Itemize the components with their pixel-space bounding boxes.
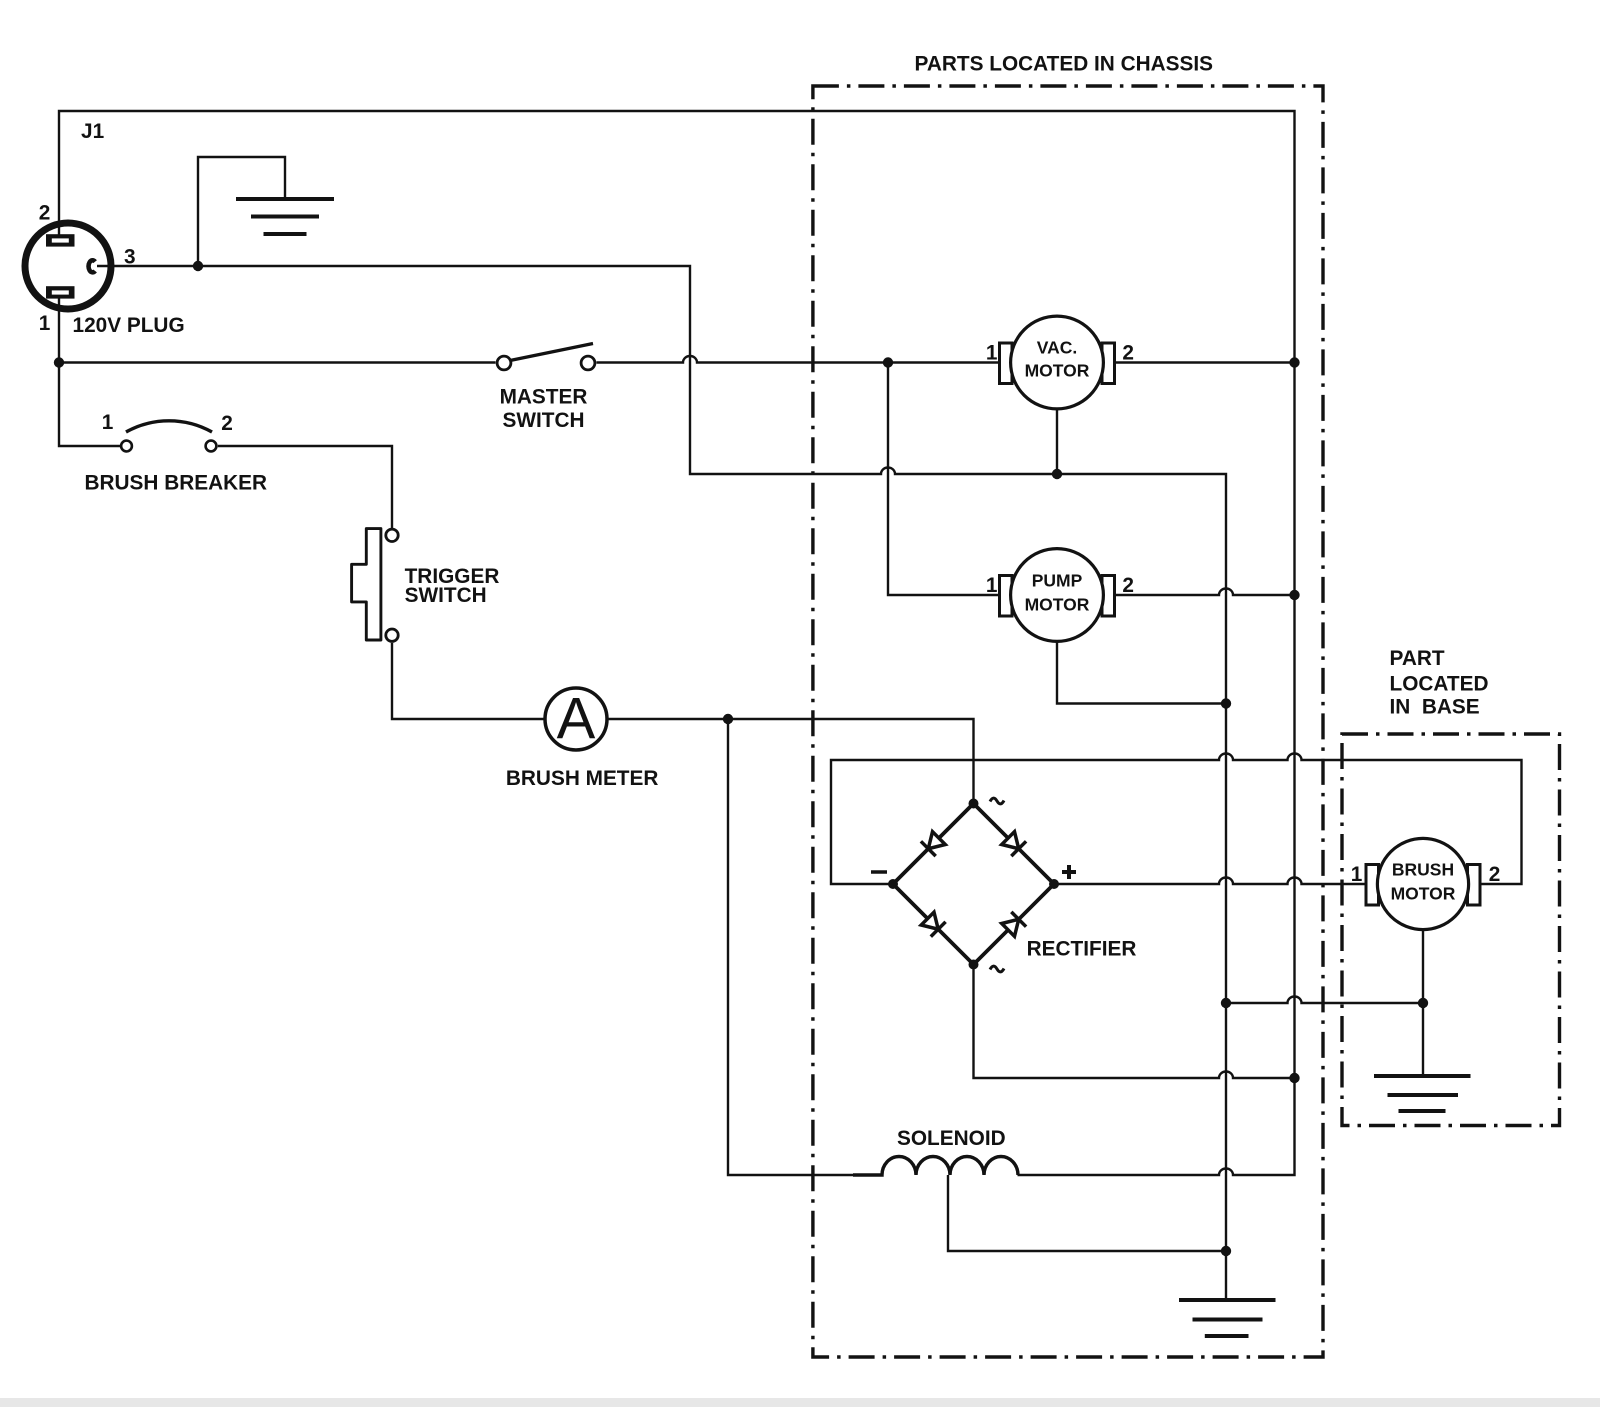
wire: J1 pin2 neutral run: left vertical, top horizontal, right vertical down to rectifier-bottom junction bbox=[59, 111, 1295, 1078]
svg-text:MOTOR: MOTOR bbox=[1391, 884, 1456, 904]
master switch bbox=[497, 344, 595, 370]
svg-text:BRUSH BREAKER: BRUSH BREAKER bbox=[85, 471, 268, 494]
wire: trigger switch to brush meter to rectifier top bbox=[392, 643, 974, 804]
wire: x=1226 vertical to brush motor bottom (hop over x=1294.5) bbox=[1226, 997, 1423, 1004]
base enclosure dash-dot box bbox=[1342, 734, 1560, 1126]
svg-text:1: 1 bbox=[1351, 863, 1363, 886]
junction: rectifier bottom wire at x=1294.5 vertical bbox=[1289, 1073, 1299, 1083]
scanner gray band at bottom edge bbox=[0, 1398, 1600, 1407]
node: rectifier minus bbox=[888, 879, 898, 889]
svg-text:SOLENOID: SOLENOID bbox=[897, 1127, 1006, 1150]
label minus bbox=[871, 870, 887, 874]
svg-text:SWITCH: SWITCH bbox=[405, 584, 487, 607]
wire: rectifier plus to brush motor pin1 (hops over x=1226 and x=1294.5) bbox=[1054, 878, 1368, 885]
wire: pump motor pin2 to right vertical (hop over x=1226) bbox=[1057, 589, 1295, 595]
svg-text:J1: J1 bbox=[81, 120, 104, 143]
vac motor bbox=[1000, 316, 1115, 409]
wire: J1 pin3 earth: right, down, across (hop over x=888), down right side to chassis ground bbox=[97, 266, 1226, 1300]
junction: x=1226 at brush motor bottom wire bbox=[1221, 998, 1231, 1008]
chassis enclosure dash-dot box bbox=[813, 86, 1323, 1357]
diode (top-left, apex toward minus) bbox=[921, 832, 945, 856]
brush breaker bbox=[121, 421, 216, 452]
wire: solenoid center tap to x=1226 vertical bbox=[948, 1175, 1226, 1251]
solenoid coil bbox=[853, 1157, 1018, 1176]
diode (bottom-left, apex toward bottom ac) bbox=[921, 912, 945, 936]
junction: hot wire at master branch bbox=[54, 357, 64, 367]
svg-text:BRUSH: BRUSH bbox=[1392, 860, 1454, 880]
junction: brush meter wire at solenoid branch bbox=[723, 714, 733, 724]
wire: master switch branch: junction to switch bbox=[59, 361, 496, 363]
svg-text:2: 2 bbox=[1122, 342, 1134, 365]
diode (bottom-right, apex toward plus) bbox=[1002, 912, 1026, 936]
svg-text:1: 1 bbox=[39, 312, 51, 335]
wire: brush motor bottom stub to base ground bbox=[1422, 929, 1424, 1076]
svg-text:A: A bbox=[557, 687, 596, 752]
pump motor bbox=[1000, 549, 1115, 642]
trigger switch bbox=[352, 529, 399, 642]
junction: vac pin2 at right vertical bbox=[1289, 357, 1299, 367]
svg-text:VAC.: VAC. bbox=[1037, 338, 1078, 358]
svg-text:MOTOR: MOTOR bbox=[1025, 360, 1090, 380]
brush motor bbox=[1366, 838, 1480, 929]
wire: vac motor bottom stub bbox=[1056, 408, 1058, 474]
node: rectifier bottom ac bbox=[969, 960, 979, 970]
junction: pump bottom at x=1226 vertical bbox=[1221, 698, 1231, 708]
svg-text:PARTS LOCATED IN CHASSIS: PARTS LOCATED IN CHASSIS bbox=[915, 53, 1214, 76]
svg-text:MASTER: MASTER bbox=[500, 385, 588, 408]
node: rectifier plus bbox=[1049, 879, 1059, 889]
svg-text:MOTOR: MOTOR bbox=[1025, 595, 1090, 615]
ground (top left, earth of 120V plug) bbox=[236, 199, 334, 234]
brush meter (ammeter A) bbox=[545, 687, 607, 752]
junction: vac bottom at earth wire bbox=[1052, 469, 1062, 479]
plug pin 1 blade bbox=[46, 286, 75, 298]
svg-text:2: 2 bbox=[1489, 863, 1501, 886]
node: rectifier top ac bbox=[969, 799, 979, 809]
junction: solenoid tap at x=1226 vertical bbox=[1221, 1246, 1231, 1256]
plug pin 3 earth pin bbox=[89, 260, 96, 272]
svg-text:120V PLUG: 120V PLUG bbox=[73, 314, 185, 337]
svg-text:2: 2 bbox=[39, 202, 51, 225]
wire: breaker to trigger switch bbox=[218, 446, 392, 528]
svg-text:1: 1 bbox=[102, 411, 114, 434]
svg-text:RECTIFIER: RECTIFIER bbox=[1027, 938, 1137, 961]
rectifier bridge bbox=[893, 804, 1054, 965]
svg-text:BRUSH METER: BRUSH METER bbox=[506, 767, 659, 790]
svg-text:LOCATED: LOCATED bbox=[1390, 673, 1489, 696]
wire: earth stub to ground symbol bbox=[198, 157, 285, 266]
svg-text:PART: PART bbox=[1390, 647, 1445, 670]
wire: master switch to vac motor pin1 and on to right vertical (hop over x=690) bbox=[597, 356, 1295, 362]
wire: rectifier bottom to x=1294.5 vertical (hop over x=1226) bbox=[974, 965, 1295, 1079]
svg-text:SWITCH: SWITCH bbox=[502, 409, 584, 432]
junction: brush motor bottom at ground stub bbox=[1418, 998, 1428, 1008]
wire: vac branch vertical to pump motor pin1 bbox=[888, 363, 1002, 596]
wire: J1 pin1 hot: down left side to brush breaker bbox=[59, 295, 120, 446]
svg-text:2: 2 bbox=[221, 412, 233, 435]
svg-text:2: 2 bbox=[1122, 574, 1134, 597]
label MASTER SWITCH bbox=[500, 385, 588, 432]
label PART LOCATED IN BASE bbox=[1390, 647, 1489, 719]
wire: pump motor bottom stub to x=1226 vertical bbox=[1057, 641, 1226, 704]
120V plug J1 bbox=[25, 223, 111, 309]
svg-text:3: 3 bbox=[124, 246, 136, 269]
junction: master wire at vac branch bbox=[883, 357, 893, 367]
svg-text:PUMP: PUMP bbox=[1032, 571, 1083, 591]
label ~ (top ac node) bbox=[990, 798, 1004, 804]
ground (chassis, bottom) bbox=[1179, 1300, 1276, 1336]
plug pin 2 blade bbox=[46, 234, 75, 246]
label ~ (bottom ac node) bbox=[990, 966, 1004, 972]
wire: brush meter junction down to solenoid and to x=1294.5 vertical (hop over x=1226) bbox=[728, 719, 1295, 1175]
ground (base, under brush motor) bbox=[1374, 1076, 1471, 1111]
label TRIGGER SWITCH bbox=[405, 565, 500, 607]
diode (top-right, apex toward plus) bbox=[1002, 832, 1026, 856]
svg-text:1: 1 bbox=[986, 574, 998, 597]
wire: rectifier minus loop to brush motor pin2 (hops over x=1226 and x=1294.5) bbox=[831, 754, 1522, 885]
svg-text:IN BASE: IN BASE bbox=[1390, 696, 1480, 719]
junction: pump pin2 at right vertical bbox=[1289, 590, 1299, 600]
svg-text:1: 1 bbox=[986, 342, 998, 365]
junction: earth wire at ground stub bbox=[193, 261, 203, 271]
label plus bbox=[1062, 865, 1076, 879]
